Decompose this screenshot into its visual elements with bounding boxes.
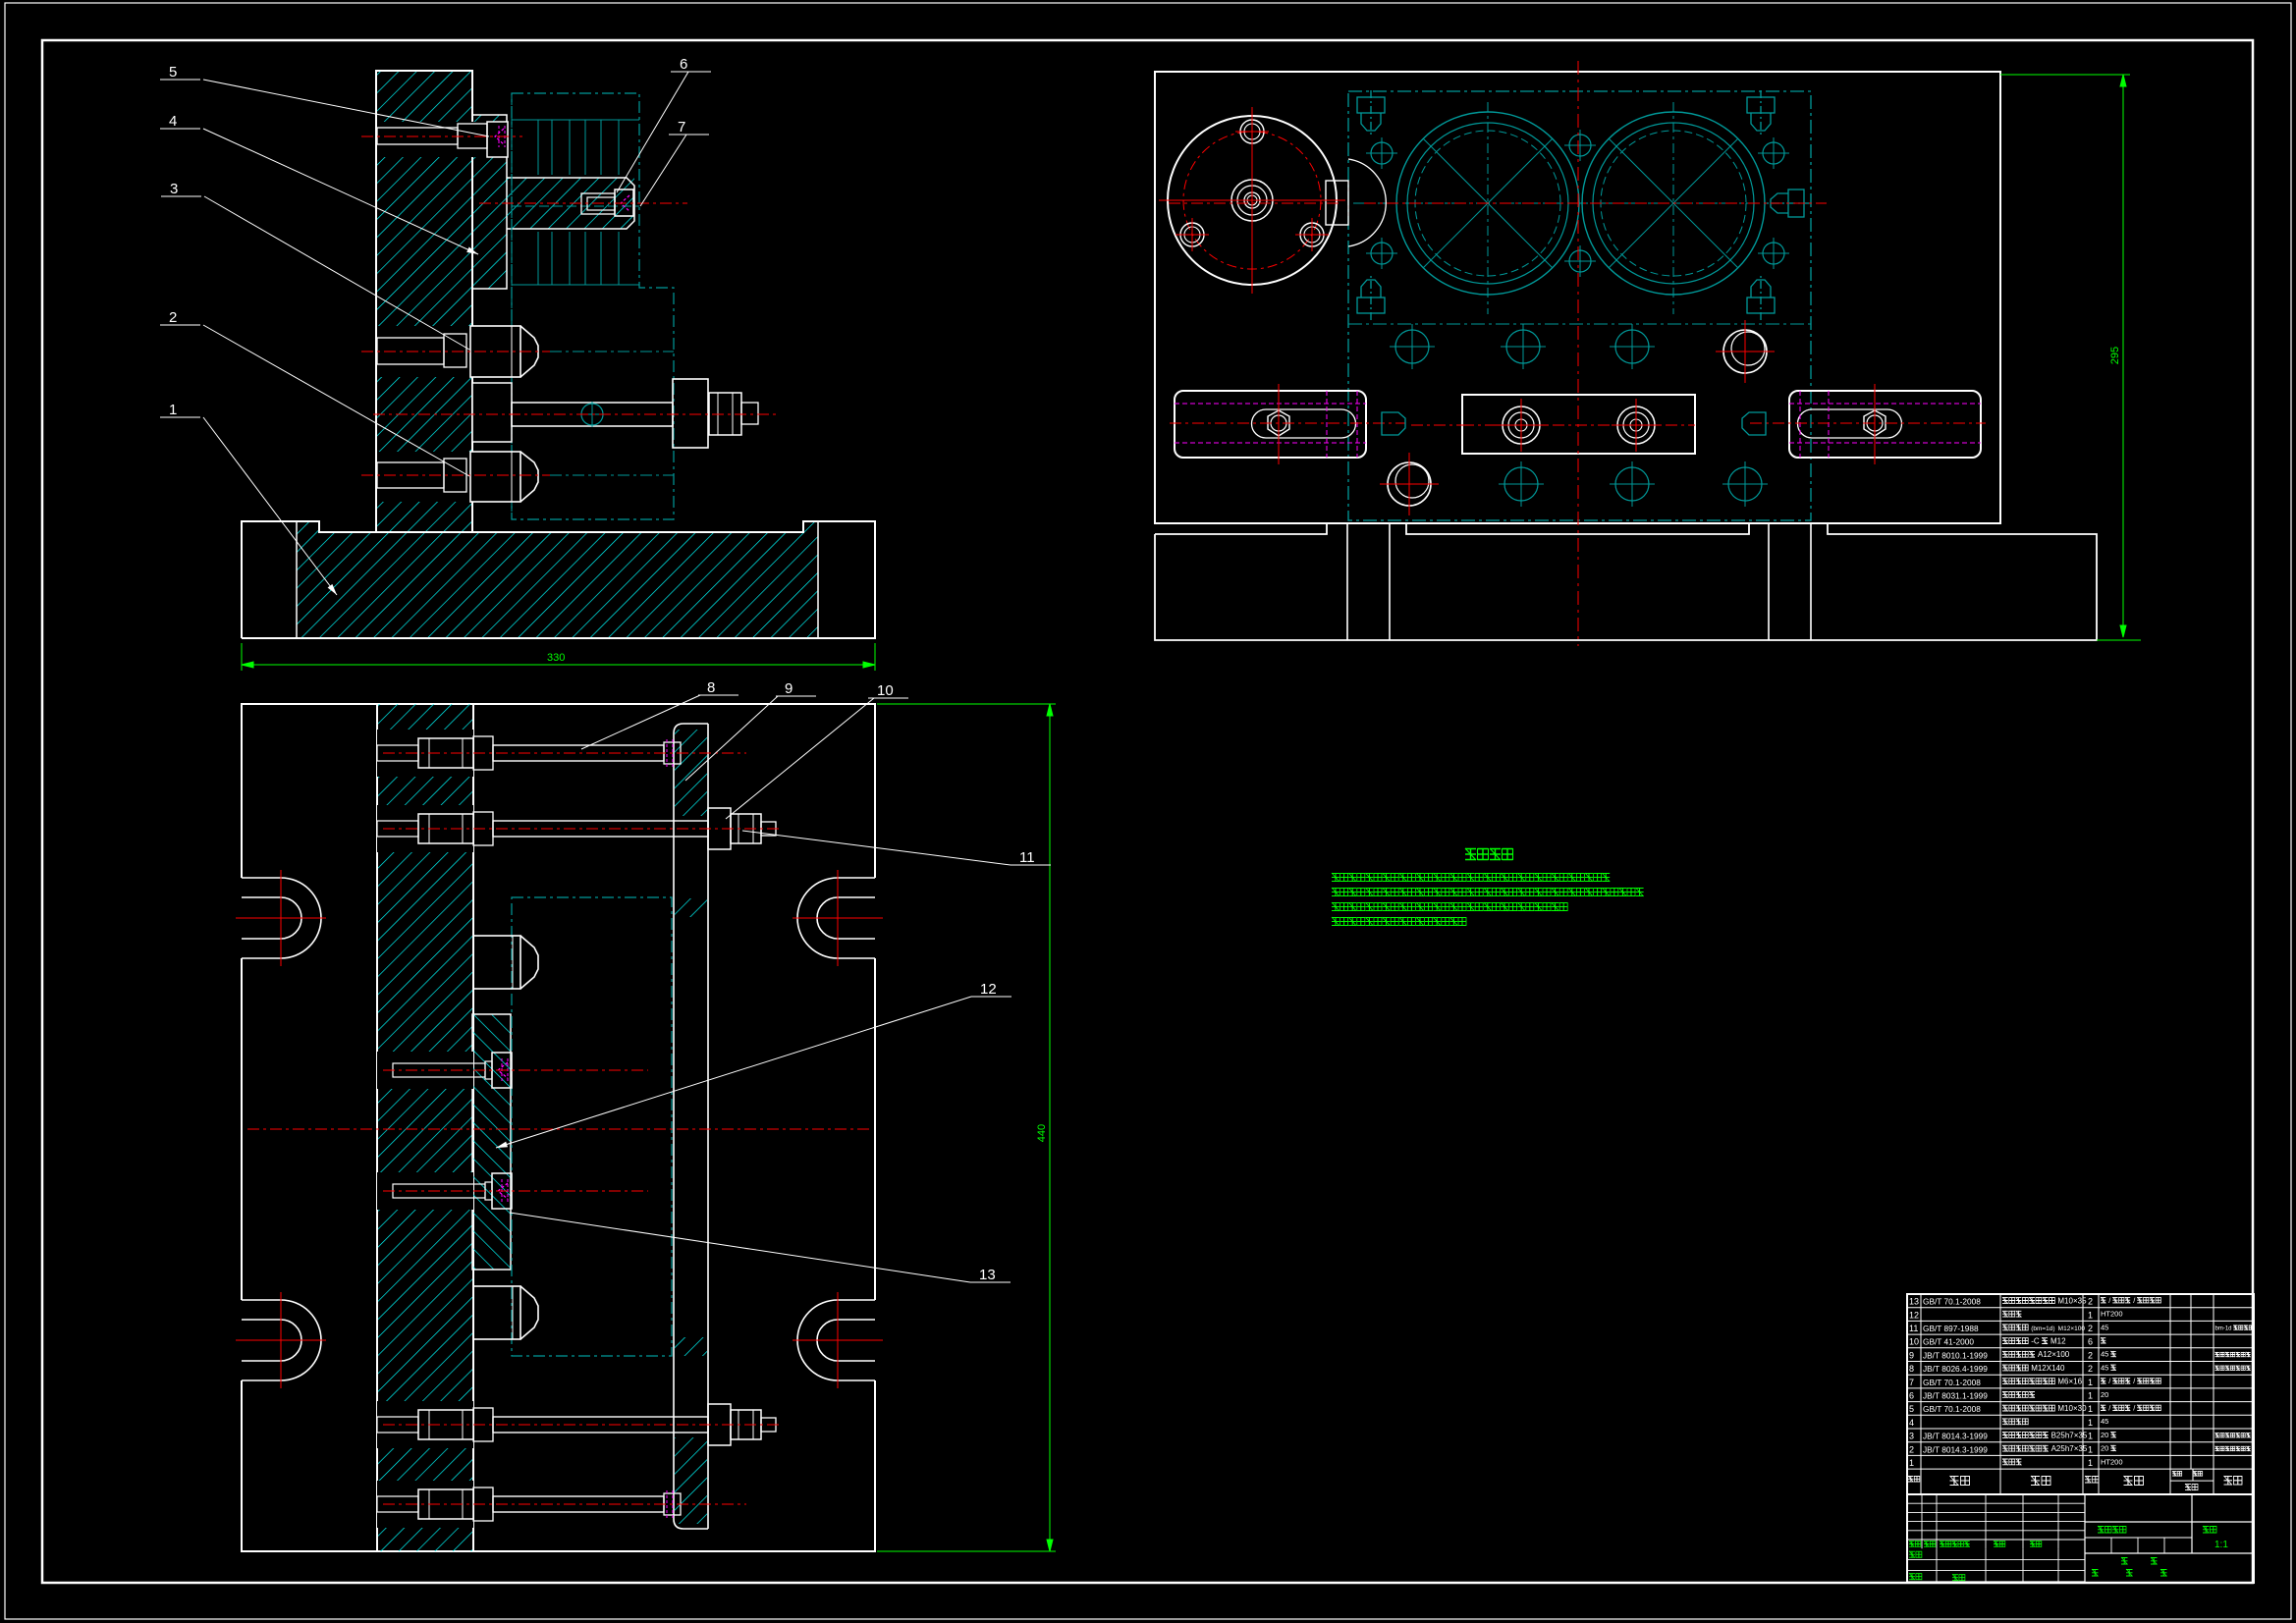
view2 bore circle left [1396, 112, 1579, 295]
svg-text:11: 11 [1909, 1324, 1918, 1333]
bolt M10x35 top (item 5) [377, 122, 508, 157]
view1 vertical column outline [376, 71, 472, 532]
view2 base band outline [1155, 523, 2097, 640]
view1 vertical column hatch (item 1 rib) [376, 71, 472, 532]
svg-text:1: 1 [2088, 1378, 2093, 1387]
svg-text:bm-1d: bm-1d [2215, 1325, 2232, 1331]
double-end stud row 2 with nut (items 10,11) [377, 805, 473, 852]
svg-text:M10×30: M10×30 [2057, 1404, 2087, 1413]
clamp stud glyphs teal [1382, 412, 1405, 435]
svg-text:4: 4 [1909, 1418, 1914, 1428]
view3 main horizontal centerline [247, 1128, 870, 1130]
svg-text:A12×100: A12×100 [2038, 1350, 2070, 1359]
svg-text:20: 20 [2101, 1390, 2108, 1399]
svg-text:GB/T 70.1-2008: GB/T 70.1-2008 [1923, 1297, 1981, 1307]
technical requirements line1 [1332, 873, 1610, 882]
socket head screw M10x35 upper (item 13) [377, 1052, 473, 1089]
double-end stud row 1 (item 11) [377, 730, 473, 777]
view2 head bolt holes teal [1371, 142, 1393, 164]
svg-text:1: 1 [1909, 1458, 1914, 1468]
svg-text:GB/T 41-2000: GB/T 41-2000 [1923, 1337, 1974, 1347]
svg-text:B25h7×35: B25h7×35 [2051, 1431, 2088, 1439]
moving clamp plate left (item 9) [1175, 391, 1366, 458]
svg-text:295: 295 [2109, 347, 2121, 364]
svg-text:JB/T 8014.3-1999: JB/T 8014.3-1999 [1923, 1432, 1988, 1441]
view3 right plate (item 9 clamp plate) [674, 724, 708, 1529]
view2 lower hole row 1 teal [1395, 330, 1429, 363]
view2 dowel pin hole A (item 2) [1388, 462, 1431, 506]
view2 lower hole row 2 teal [1504, 467, 1538, 501]
double-end stud row 3 with nut (items 10,11) [377, 1401, 473, 1448]
svg-text:5: 5 [1909, 1404, 1914, 1414]
svg-text:12: 12 [980, 981, 997, 998]
flange bolts [1240, 120, 1264, 143]
green dimension 295 view2 [2000, 74, 2130, 76]
view2 horizontal centerline bores [1169, 202, 1341, 204]
svg-text:-C: -C [2031, 1337, 2040, 1346]
centerline support lower [361, 474, 550, 476]
U-slot top-left [242, 878, 321, 958]
adjustable support upper (item 8) [377, 326, 542, 377]
centerline support upper [361, 351, 550, 352]
technical requirements line4 [1332, 917, 1466, 926]
svg-text:1: 1 [2088, 1418, 2093, 1428]
svg-text:JB/T 8010.1-1999: JB/T 8010.1-1999 [1923, 1350, 1988, 1360]
view3 support plate middle (item 12) hatch [472, 1014, 511, 1270]
svg-text:20: 20 [2101, 1431, 2108, 1439]
technical requirements line2 [1332, 888, 1644, 896]
svg-text:7: 7 [1909, 1378, 1914, 1387]
svg-text:4: 4 [169, 113, 177, 130]
svg-text:2: 2 [2088, 1324, 2093, 1333]
svg-text:11: 11 [1019, 849, 1035, 866]
support plate middle (item 12 plan) [1462, 395, 1695, 454]
svg-text:2: 2 [1909, 1444, 1914, 1454]
view2 dowel pin hole B (item 3) [1723, 330, 1767, 373]
centerline screw M6 [479, 202, 687, 204]
svg-text:330: 330 [547, 652, 565, 664]
svg-text:8: 8 [1909, 1364, 1914, 1374]
view1 workpiece phantom outline (cylinder block) [512, 93, 674, 519]
svg-text:(bm=1d): (bm=1d) [2031, 1325, 2054, 1332]
svg-text:1: 1 [169, 402, 177, 418]
svg-text:M12×100: M12×100 [2058, 1325, 2086, 1332]
svg-text:2: 2 [169, 309, 177, 326]
view3 column outline [376, 704, 378, 1551]
svg-text:2: 2 [2088, 1297, 2093, 1307]
svg-text:1: 1 [2088, 1404, 2093, 1414]
dowel hole phantom circle [581, 404, 603, 425]
svg-text:45: 45 [2101, 1323, 2108, 1331]
title block grid [1907, 1494, 2254, 1583]
green dimension 440 of view3 [877, 703, 1056, 705]
svg-text:1:1: 1:1 [2214, 1540, 2228, 1550]
svg-text:GB/T 70.1-2008: GB/T 70.1-2008 [1923, 1378, 1981, 1387]
centerline bolt 5 [361, 135, 522, 137]
svg-text:JB/T 8014.3-1999: JB/T 8014.3-1999 [1923, 1444, 1988, 1454]
svg-text:1: 1 [2088, 1458, 2093, 1468]
svg-text:45: 45 [2101, 1417, 2108, 1426]
stud backing block in view1 [472, 383, 512, 442]
svg-text:10: 10 [1909, 1337, 1919, 1347]
round tool block screw M6x16 (item 7) [581, 193, 615, 214]
svg-text:A25h7×35: A25h7×35 [2051, 1444, 2088, 1453]
svg-text:1: 1 [2088, 1432, 2093, 1441]
BOM table grid [1907, 1294, 2254, 1494]
svg-text:5: 5 [169, 64, 177, 81]
U-slot top-right [797, 878, 875, 958]
svg-text:6: 6 [680, 56, 687, 73]
svg-text:10: 10 [877, 682, 894, 699]
double-end stud row 4 (item 11) [377, 1481, 473, 1528]
socket head screw M10x35 lower (item 13) [377, 1172, 473, 1210]
svg-text:6: 6 [1909, 1391, 1914, 1401]
double-end stud with hex nut (item 11) in view1 [512, 403, 673, 426]
svg-text:M12: M12 [2050, 1337, 2066, 1346]
technical requirements line3 [1332, 902, 1567, 911]
view2 left boss [1326, 181, 1348, 225]
svg-text:13: 13 [979, 1267, 996, 1283]
view1 tool-setting bracket leg (item 4) [472, 115, 507, 289]
view1 workpiece spline strips [537, 120, 539, 175]
view2 corner plug glyphs teal [1357, 90, 1385, 135]
svg-text:9: 9 [1909, 1350, 1914, 1360]
svg-text:M6×16: M6×16 [2057, 1378, 2082, 1386]
view2 teal horizontal bore axis [1353, 202, 1807, 204]
svg-text:3: 3 [1909, 1432, 1914, 1441]
view1 base plate outline [242, 521, 875, 638]
view2 workpiece phantom rect [1348, 91, 1811, 520]
adjustable support lower (item 8) [377, 452, 542, 502]
svg-text:12: 12 [1909, 1310, 1919, 1320]
svg-text:2: 2 [2088, 1350, 2093, 1360]
green dimension 330 of base [241, 643, 243, 671]
moving clamp plate right (item 9) [1789, 391, 1981, 458]
BOM header row texts [1908, 1476, 1920, 1483]
svg-text:M10×35: M10×35 [2057, 1296, 2087, 1305]
view1 base plate hatch (item 1) [297, 521, 818, 638]
svg-text:2: 2 [2088, 1364, 2093, 1374]
view3 body outline (item 1 section) [242, 704, 875, 1551]
svg-text:440: 440 [1036, 1124, 1048, 1142]
view2 round flange top-left [1168, 116, 1337, 285]
svg-text:9: 9 [785, 680, 793, 697]
svg-text:GB/T 897-1988: GB/T 897-1988 [1923, 1324, 1979, 1333]
view1 workpiece lower bores phantom lines [527, 351, 674, 352]
centerline stud view1 [373, 413, 778, 415]
svg-text:45: 45 [2101, 1363, 2108, 1372]
svg-text:GB/T 70.1-2008: GB/T 70.1-2008 [1923, 1404, 1981, 1414]
svg-text:HT200: HT200 [2101, 1310, 2123, 1319]
view3 workpiece phantom [512, 897, 672, 1356]
svg-text:1: 1 [2088, 1444, 2093, 1454]
svg-text:HT200: HT200 [2101, 1457, 2123, 1466]
adjustable support in view3 lower (item 8) [473, 1286, 520, 1339]
view2 bore circle right [1582, 112, 1765, 295]
view2 main vertical centerline [1577, 61, 1579, 646]
svg-text:8: 8 [707, 679, 715, 696]
svg-text:JB/T 8026.4-1999: JB/T 8026.4-1999 [1923, 1364, 1988, 1374]
svg-text:13: 13 [1909, 1297, 1919, 1307]
U-slot bottom-left [242, 1300, 321, 1380]
svg-text:3: 3 [170, 181, 178, 197]
svg-text:M12X140: M12X140 [2031, 1364, 2065, 1373]
U-slot bottom-right [797, 1300, 875, 1380]
view1 tool-setting bracket arm (item 4) [507, 178, 634, 229]
flange bolt circle red dashed [1183, 132, 1321, 269]
svg-text:7: 7 [678, 119, 685, 135]
adjustable support in view3 upper (item 8) [473, 936, 520, 989]
view2 body outline [1155, 72, 2000, 523]
svg-text:20: 20 [2101, 1444, 2108, 1453]
view3 column hatch [377, 704, 473, 1551]
svg-text:45: 45 [2101, 1350, 2108, 1359]
svg-text:JB/T 8031.1-1999: JB/T 8031.1-1999 [1923, 1391, 1988, 1401]
svg-text:6: 6 [2088, 1337, 2093, 1347]
technical requirements title [1465, 848, 1513, 860]
svg-text:1: 1 [2088, 1391, 2093, 1401]
svg-text:1: 1 [2088, 1310, 2093, 1320]
